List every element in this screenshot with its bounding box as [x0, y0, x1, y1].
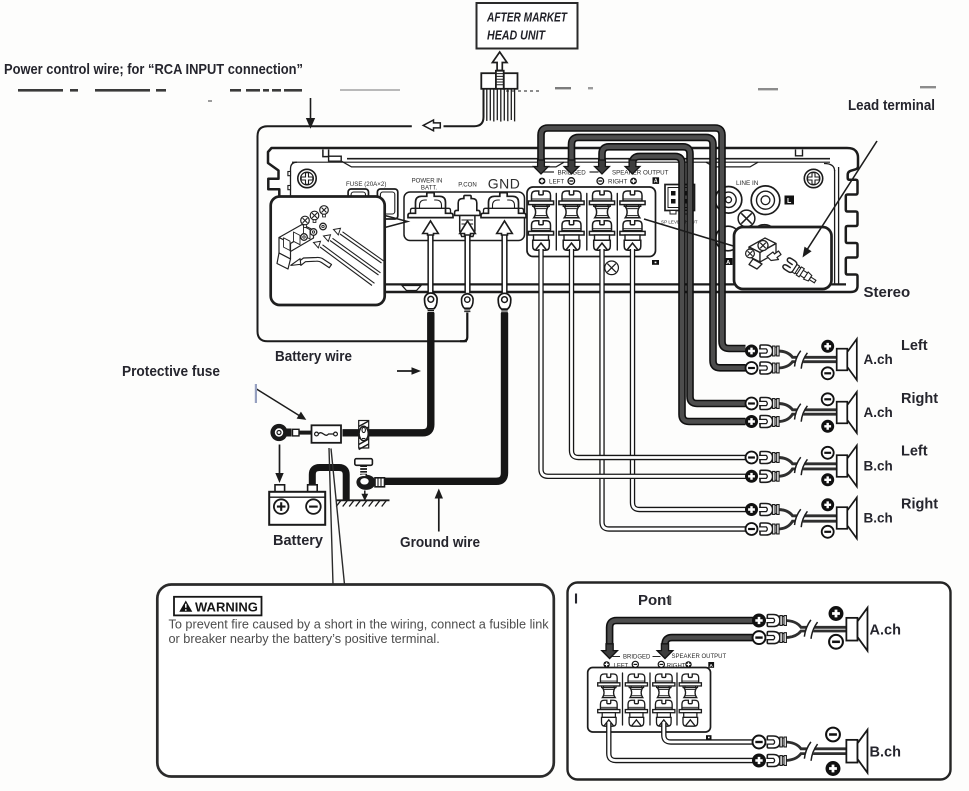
terminal P.CON	[455, 195, 480, 236]
wire from lower RIGHT + terminal to B.ch Right +	[633, 249, 746, 510]
svg-text:POWER IN: POWER IN	[412, 178, 443, 185]
incoming wires with open arrows	[320, 232, 384, 286]
leader line from speaker terminals	[644, 219, 735, 247]
long pointer arrow from label	[803, 141, 878, 258]
wire from LEFT + terminal to A.ch Left +	[541, 128, 746, 349]
svg-text:A: A	[654, 179, 658, 185]
svg-text:P.CON: P.CON	[458, 182, 477, 189]
svg-text:HEAD UNIT: HEAD UNIT	[487, 28, 546, 43]
faded second line remnants	[18, 86, 936, 196]
svg-text:Stereo: Stereo	[864, 284, 911, 301]
bevel band left	[342, 161, 565, 167]
svg-text:Lead terminal: Lead terminal	[848, 97, 935, 114]
bridged wire +	[610, 621, 753, 647]
svg-text:FUSE (20A×2): FUSE (20A×2)	[346, 181, 386, 188]
inner panel right edges	[835, 167, 839, 284]
dark arrows into terminals	[534, 160, 549, 174]
ground wire: GND ring down, left to ground lug	[384, 313, 505, 481]
svg-text:BRIDGED: BRIDGED	[623, 655, 651, 661]
svg-text:or breaker nearby the battery’: or breaker nearby the battery’s positive…	[169, 632, 440, 646]
isometric terminal block	[277, 225, 314, 270]
A marker square lower left	[724, 258, 733, 266]
fuse holder 2	[377, 189, 397, 219]
arrow from fuse down to battery plus	[275, 445, 283, 484]
white arrow stems for BATT / P.CON / GND	[428, 232, 507, 293]
wire from RIGHT + terminal to A.ch Right +	[633, 156, 746, 421]
power control wire from bundle to open arrow	[444, 89, 484, 126]
B marker square	[652, 260, 659, 265]
ground hatch symbol	[336, 500, 390, 506]
screw right	[804, 169, 822, 187]
svg-text:Protective fuse: Protective fuse	[122, 364, 220, 380]
pair wires	[778, 351, 839, 368]
divider slots	[556, 194, 617, 251]
svg-text:I: I	[574, 592, 578, 608]
battery wire pointer arrow	[397, 367, 421, 375]
fuse ring terminal	[270, 424, 311, 441]
svg-text:LINE IN: LINE IN	[736, 180, 759, 187]
svg-text:B.ch: B.ch	[864, 459, 893, 474]
labels	[614, 654, 727, 669]
small down arrow pointer	[307, 98, 315, 128]
BRIDGED / SPEAKER OUTPUT labels	[549, 169, 669, 185]
power terminal recess	[404, 192, 525, 241]
lid edge lines	[347, 158, 830, 160]
chassis outer outline with left and right heatsink profile	[268, 148, 858, 292]
A marker square	[653, 177, 660, 184]
protective fuse pointer arrow	[257, 389, 307, 420]
svg-text:LEFT: LEFT	[614, 663, 629, 669]
p.con wire: thin, down then left joining power control loop	[460, 313, 467, 342]
wire from lower LEFT - terminal to B.ch Left -	[572, 249, 746, 458]
top-right tab	[796, 150, 803, 156]
svg-text:B.ch: B.ch	[864, 511, 893, 526]
ring terminal BATT	[425, 293, 438, 312]
heading: power control wire label	[4, 61, 303, 78]
svg-text:WARNING: WARNING	[195, 600, 258, 615]
wire from LEFT - terminal to A.ch Left -	[572, 137, 746, 367]
svg-text:A.ch: A.ch	[864, 405, 893, 420]
svg-text:Battery: Battery	[273, 533, 323, 549]
after market head unit box	[477, 3, 578, 49]
svg-text:RIGHT: RIGHT	[608, 179, 627, 186]
svg-text:SPEAKER OUTPUT: SPEAKER OUTPUT	[612, 169, 669, 176]
svg-text:To prevent fire caused by a sh: To prevent fire caused by a short in the…	[169, 618, 550, 632]
protective fuse holder	[312, 425, 342, 443]
terminal GND	[481, 193, 526, 218]
white insertion arrow	[767, 251, 781, 261]
arrows into terminals	[602, 644, 618, 659]
bottom inner line	[281, 283, 846, 285]
svg-text:BATT.: BATT.	[421, 185, 437, 192]
battery	[269, 485, 325, 525]
bottom foot tab	[402, 286, 421, 291]
svg-text:LEFT: LEFT	[549, 179, 564, 186]
lower RCA jacks (partially hidden)	[716, 225, 777, 251]
svg-text:A.ch: A.ch	[864, 352, 893, 367]
terminal POWER IN BATT	[408, 193, 453, 218]
firewall grommet hatch	[359, 421, 369, 450]
ring terminal GND	[498, 293, 511, 312]
amplifier chassis outline with heatsink fins	[268, 148, 858, 292]
power control wire looping around amplifier left side	[258, 126, 467, 341]
speaker terminal block	[527, 187, 656, 257]
connector wire bundle	[487, 89, 515, 122]
leader V to BATT terminal	[385, 216, 408, 228]
A.ch row	[753, 607, 901, 651]
wire from RIGHT - terminal to A.ch Right -	[602, 147, 746, 404]
RCA jack 1	[715, 187, 742, 214]
up arrow to head unit	[492, 52, 507, 71]
leader lines to warning box	[329, 448, 345, 585]
B.ch row	[753, 728, 901, 776]
fork lead terminal	[782, 257, 819, 287]
ground screw	[355, 459, 373, 477]
svg-text:A.ch: A.ch	[870, 623, 901, 639]
ring terminals	[301, 223, 327, 240]
warning triangle	[179, 601, 192, 612]
dark speaker wires A channel	[541, 128, 746, 422]
bevel band right	[706, 162, 758, 167]
X bolt circle right	[738, 210, 755, 227]
svg-text:SPEAKER OUTPUT: SPEAKER OUTPUT	[672, 654, 727, 660]
RCA jack 2	[751, 186, 780, 215]
bent lead wire with open arrow	[298, 257, 332, 267]
white speaker wires B channel	[541, 249, 746, 529]
ground ring lug	[356, 475, 384, 490]
white wires to B.ch	[609, 722, 753, 761]
head unit connector	[481, 71, 517, 89]
screws with washers	[301, 206, 329, 228]
speaker	[837, 339, 857, 380]
inner panel left edge	[291, 162, 298, 196]
L marker square	[785, 196, 795, 205]
svg-text:Right: Right	[901, 391, 938, 407]
break	[794, 350, 808, 369]
terminal block	[588, 668, 711, 733]
ring terminal P.CON	[462, 294, 474, 312]
svg-text:Battery wire: Battery wire	[275, 349, 352, 365]
battery wire: BATT ring down, left through firewall to fuse	[343, 313, 431, 433]
svg-text:B.ch: B.ch	[870, 745, 901, 761]
svg-text:Power control wire; for “RCA I: Power control wire; for “RCA INPUT conne…	[4, 61, 303, 78]
svg-text:Left: Left	[901, 444, 928, 460]
SP LEVEL INPUT connector	[665, 185, 695, 215]
battery minus to chassis wire	[312, 468, 346, 500]
isometric screw terminals	[746, 238, 776, 269]
wire from lower RIGHT - terminal to B.ch Right -	[602, 249, 746, 529]
svg-text:GND: GND	[488, 176, 521, 192]
svg-text:Left: Left	[901, 338, 928, 354]
svg-text:Pont: Pont	[638, 592, 671, 609]
svg-text:A: A	[726, 260, 730, 266]
svg-text:AFTER MARKET: AFTER MARKET	[486, 10, 567, 25]
open left arrow	[423, 120, 440, 131]
white up arrows	[423, 221, 439, 235]
terminals	[746, 345, 758, 357]
svg-text:Ground wire: Ground wire	[400, 534, 480, 551]
svg-text:RIGHT: RIGHT	[667, 663, 686, 669]
top-left tab and step	[323, 150, 329, 157]
wire from lower LEFT + terminal to B.ch Left +	[541, 249, 746, 476]
svg-text:L: L	[787, 198, 792, 205]
svg-text:Right: Right	[901, 497, 938, 513]
small arrow to ground plane	[361, 491, 368, 502]
fuse holder 1	[348, 189, 368, 219]
X bolt circle lower	[605, 261, 619, 275]
bridged wire -	[665, 638, 753, 646]
screw left	[298, 169, 316, 187]
ground wire pointer arrow	[435, 489, 443, 532]
speaker terminal columns	[528, 191, 553, 250]
